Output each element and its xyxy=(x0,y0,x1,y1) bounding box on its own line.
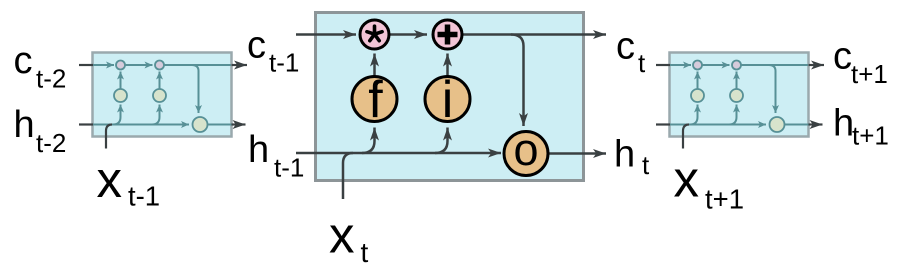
svg-text:i: i xyxy=(442,71,454,129)
wire: left cell branch up into i gate xyxy=(152,105,160,125)
wire: i up to add xyxy=(446,54,449,77)
svg-text:x: x xyxy=(97,151,123,208)
svg-text:h: h xyxy=(14,104,35,146)
node: left cell add (small) xyxy=(155,61,164,70)
wire: left cell internal c arrow to mult node xyxy=(93,64,114,66)
svg-text:h: h xyxy=(833,103,854,145)
svg-text:t+1: t+1 xyxy=(705,184,744,215)
wire: left cell internal h line arrow into o xyxy=(93,124,189,126)
wire: right cell c output arrow xyxy=(809,64,825,66)
svg-text:t-1: t-1 xyxy=(269,48,299,78)
wire: right cell i up to add xyxy=(736,72,738,90)
wire: branch up into i xyxy=(435,128,448,154)
left LSTM cell box xyxy=(93,53,232,137)
node: right cell o gate xyxy=(770,117,785,132)
glyph: asterisk xyxy=(367,26,382,41)
svg-text:t+1: t+1 xyxy=(852,121,889,151)
wire: right cell h output arrow xyxy=(809,123,823,125)
wire: c(t) entry into right cell xyxy=(656,64,670,66)
wire: right cell branch up into i gate xyxy=(729,105,737,125)
svg-text:h: h xyxy=(614,134,635,176)
wire: left cell x(t-1) input from below xyxy=(106,125,112,149)
node: left cell o gate xyxy=(193,117,208,132)
svg-text:c: c xyxy=(247,25,266,67)
svg-text:c: c xyxy=(833,36,852,78)
wire: h output after o with arrow to h(t) xyxy=(549,152,606,155)
wire: left cell c output arrow xyxy=(232,64,248,66)
node: right cell i gate xyxy=(730,89,743,102)
node: right cell add (small) xyxy=(732,61,741,70)
svg-text:c: c xyxy=(616,26,635,68)
wire: left cell h output arrow xyxy=(232,123,246,125)
svg-text:t: t xyxy=(638,48,646,78)
node: o gate circle xyxy=(504,132,548,176)
wire: left cell c line after add to border xyxy=(164,64,231,66)
svg-text:x: x xyxy=(674,151,700,208)
wire: x(t) input from below xyxy=(343,153,353,199)
wire: h(t-1) input line arrow into o xyxy=(296,152,501,155)
wire: c output line with arrow to c(t) xyxy=(462,33,606,36)
wire: right cell arrow mult to add node xyxy=(702,64,730,66)
central LSTM cell box xyxy=(316,13,584,181)
node: i gate circle xyxy=(425,77,470,122)
wire: left cell h entry xyxy=(79,123,93,125)
svg-text:o: o xyxy=(513,124,538,175)
node: left cell f gate xyxy=(114,89,127,102)
svg-text:t-2: t-2 xyxy=(36,128,66,158)
wire: left cell f up to mult xyxy=(120,72,122,90)
wire: right cell internal h line arrow into o xyxy=(670,124,766,126)
svg-text:t: t xyxy=(642,150,650,180)
wire: right cell f up to mult xyxy=(697,72,699,90)
wire: c(t-1) input arrow into mult xyxy=(296,33,356,36)
wire: right cell c line after add to border xyxy=(741,64,808,66)
glyph: plus xyxy=(438,25,458,45)
wire: right cell branch up into f gate xyxy=(690,105,698,125)
node: right cell f gate xyxy=(691,89,704,102)
wire: left cell c branch down to o node xyxy=(192,65,199,113)
wire: right cell c branch down to o node xyxy=(769,65,776,113)
node: add circle (+) xyxy=(433,20,462,49)
node: mult circle (*) xyxy=(360,20,389,49)
node: left cell mult (small) xyxy=(116,61,125,70)
wire: right cell internal c arrow to mult node xyxy=(670,64,691,66)
wire: right cell x(t+1) input from below xyxy=(683,125,689,149)
svg-text:t+1: t+1 xyxy=(851,59,888,89)
svg-text:t-1: t-1 xyxy=(128,181,160,212)
node: f gate circle xyxy=(352,77,397,122)
wire: left cell arrow mult to add node xyxy=(125,64,153,66)
wire: f up to mult xyxy=(373,54,376,77)
node: left cell i gate xyxy=(153,89,166,102)
svg-text:c: c xyxy=(14,40,33,82)
svg-text:t: t xyxy=(361,237,369,268)
wire: c branch down into o xyxy=(511,35,524,127)
svg-text:t-2: t-2 xyxy=(36,64,66,94)
wire: right cell h entry xyxy=(656,123,670,125)
wire: arrow mult to add xyxy=(390,33,427,36)
wire: left cell branch up into f gate xyxy=(113,105,121,125)
right LSTM cell box xyxy=(670,53,809,137)
svg-text:h: h xyxy=(248,129,269,171)
svg-text:f: f xyxy=(368,71,383,129)
wire: right cell h after o to border xyxy=(785,124,809,126)
svg-text:t-1: t-1 xyxy=(274,153,304,183)
wire: left cell h after o to border xyxy=(208,124,232,126)
wire: branch up into f xyxy=(362,128,375,154)
node: right cell mult (small) xyxy=(693,61,702,70)
wire: left cell i up to add xyxy=(159,72,161,90)
svg-text:x: x xyxy=(329,207,355,264)
wire: c(t-2) entry into left cell xyxy=(79,64,93,66)
